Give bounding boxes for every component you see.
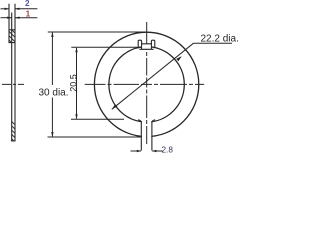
30 dia. bottom extension line: [48, 136, 142, 138]
tab right bump: [151, 40, 154, 48]
side view: top edge: [9, 29, 16, 31]
front view: inner circle: [109, 47, 184, 122]
dimension 1: left arrow: [1, 17, 12, 19]
side view: tab front edge + extension line for dim 2: [8, 4, 10, 43]
mask over tab region: [142, 42, 150, 50]
22.2 dia. upper arrowhead: [176, 56, 182, 61]
tab left bump: [138, 40, 141, 48]
20.5 dimension line with arrows: [76, 48, 78, 119]
front view: outer circle: [94, 32, 198, 136]
side view: plate front edge + extension line for dim 1: [11, 13, 13, 142]
30 dia. dimension line upper segment with arrow: [51, 33, 53, 85]
slot right edge: [151, 122, 153, 151]
side view: horizontal centerline tick: [2, 83, 24, 85]
30 dia. dimension line lower segment with arrow: [51, 98, 53, 137]
anti-rotation tab rectangle: [139, 44, 153, 50]
svg-text:2: 2: [25, 0, 30, 8]
svg-text:20.5: 20.5: [68, 74, 78, 92]
slot left edge: [140, 122, 142, 151]
2.8 dimension right shaft and arrow: [152, 150, 162, 152]
20.5 top extension line: [71, 46, 138, 48]
dimension 1: right arrow and leader: [15, 17, 37, 19]
vertical centerline: [146, 22, 148, 144]
side view: back edge + extension line: [14, 4, 16, 142]
side view: bottom edge: [11, 140, 16, 142]
side view: top hatching: [9, 30, 15, 43]
20.5 bottom extension line: [71, 118, 124, 120]
22.2 dia. underline: [194, 42, 233, 44]
dimension 2: left arrow: [1, 8, 9, 10]
slot right fillet: [152, 120, 155, 122]
side view: tab bottom edge: [9, 42, 16, 44]
horizontal centerline: [85, 83, 207, 85]
2.8 dimension left shaft and arrow: [131, 150, 142, 152]
svg-text:22.2 dia.: 22.2 dia.: [201, 33, 239, 44]
slot left fillet: [138, 120, 141, 122]
22.2 dia. lower arrowhead: [112, 104, 118, 109]
side view: bottom hatching: [12, 122, 15, 141]
svg-text:1: 1: [26, 9, 31, 18]
dimension 2: right arrow and leader: [15, 8, 37, 10]
svg-text:30 dia.: 30 dia.: [39, 87, 69, 98]
svg-text:2.8: 2.8: [162, 146, 174, 155]
22.2 dia. leader diagonal: [112, 43, 194, 109]
mask over slot region: [142, 115, 151, 155]
30 dia. top extension line: [48, 31, 147, 33]
